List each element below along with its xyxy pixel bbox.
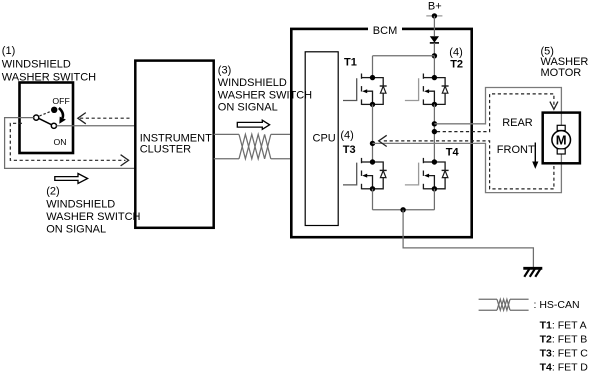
label (2) windshield washer switch on signal bbox=[46, 186, 140, 236]
svg-text:WINDSHIELD: WINDSHIELD bbox=[46, 198, 115, 210]
transistor T1 (FET A) bbox=[343, 74, 387, 108]
ground symbol bbox=[523, 268, 542, 277]
block arrow (3) bbox=[237, 120, 269, 129]
svg-text:(4): (4) bbox=[340, 130, 353, 142]
dashed signal arrow into switch bbox=[80, 117, 130, 119]
svg-text:REAR: REAR bbox=[502, 117, 533, 129]
svg-text:BCM: BCM bbox=[373, 25, 397, 37]
node: ground tap bbox=[400, 207, 405, 212]
svg-text:: HS-CAN: : HS-CAN bbox=[534, 299, 580, 311]
svg-text:WASHER SWITCH: WASHER SWITCH bbox=[46, 211, 140, 223]
svg-text:MOTOR: MOTOR bbox=[541, 67, 582, 79]
diode D1 (B+ feed) bbox=[430, 36, 439, 42]
wire right branch T2 source to T4 drain bbox=[433, 104, 435, 162]
svg-text:INSTRUMENT: INSTRUMENT bbox=[140, 132, 212, 144]
svg-text:T4: T4 bbox=[446, 147, 460, 159]
label (3) windshield washer switch on signal bbox=[218, 64, 312, 113]
wire left bridge output to motor bottom bbox=[373, 143, 562, 192]
wire diode to top rail bbox=[433, 43, 435, 56]
svg-text:WASHER: WASHER bbox=[541, 56, 589, 68]
svg-text:M: M bbox=[556, 133, 567, 148]
svg-text:ON: ON bbox=[54, 137, 67, 147]
B+ terminal bbox=[426, 15, 442, 17]
switch SW1 box bbox=[20, 83, 74, 154]
svg-text:OFF: OFF bbox=[52, 96, 69, 106]
svg-text:T3: FET C: T3: FET C bbox=[540, 348, 589, 360]
wire: switch pivot to instrument cluster (lower route) bbox=[5, 118, 135, 169]
svg-text:T1: T1 bbox=[344, 57, 357, 69]
svg-text:T2: T2 bbox=[450, 58, 463, 70]
svg-text:CPU: CPU bbox=[313, 132, 336, 144]
dashed signal path from switch to cluster (2) bbox=[10, 123, 125, 160]
wire T4 source to bottom rail bbox=[433, 189, 435, 210]
wire bottom rail bbox=[373, 209, 435, 211]
wire right bridge output to motor top bbox=[434, 88, 561, 126]
BCM box bbox=[291, 29, 471, 237]
node: right bridge dashed tap bbox=[432, 129, 437, 134]
svg-text:FRONT: FRONT bbox=[497, 144, 535, 156]
switch SW1 rotation arrow bbox=[59, 108, 63, 118]
legend twisted pair symbol bbox=[479, 299, 529, 310]
twisted pair wire top: cluster to BCM bbox=[214, 133, 239, 135]
svg-text:T1: FET A: T1: FET A bbox=[540, 320, 587, 332]
svg-text:WINDSHIELD: WINDSHIELD bbox=[218, 77, 287, 89]
washer motor box bbox=[543, 113, 580, 164]
wire: switch ON contact to instrument cluster bbox=[57, 125, 136, 127]
svg-text:(3): (3) bbox=[218, 64, 231, 76]
svg-text:(4): (4) bbox=[449, 46, 462, 58]
motor M1 top brush bbox=[557, 125, 565, 130]
motor M1 bottom brush bbox=[557, 149, 565, 154]
svg-text:B+: B+ bbox=[428, 1, 442, 13]
svg-text:T4: FET D: T4: FET D bbox=[540, 362, 589, 374]
motor M1 armature circle bbox=[552, 131, 571, 150]
svg-text:WASHER SWITCH: WASHER SWITCH bbox=[218, 90, 312, 102]
switch SW1 lever bbox=[39, 119, 51, 125]
svg-text:CLUSTER: CLUSTER bbox=[140, 144, 191, 156]
instrument cluster box bbox=[135, 61, 213, 228]
wire left branch T1 source to T3 drain bbox=[372, 104, 374, 162]
twisted pair wire bottom: cluster to BCM bbox=[214, 158, 239, 160]
node: right bridge output (motor feed) bbox=[432, 121, 437, 126]
svg-text:T2: FET B: T2: FET B bbox=[540, 334, 588, 346]
twisted pair twist symbol bbox=[239, 134, 271, 158]
switch SW1 dashed off-position stub bbox=[40, 112, 51, 116]
transistor T2 (FET B) bbox=[405, 74, 449, 108]
wire top rail bbox=[373, 55, 435, 57]
switch SW1 OFF contact dot bbox=[51, 107, 57, 113]
front direction arrow bbox=[534, 143, 536, 163]
wire to ground bbox=[403, 210, 533, 268]
transistor T3 (FET C) bbox=[343, 158, 387, 192]
svg-text:ON SIGNAL: ON SIGNAL bbox=[46, 224, 106, 236]
block arrow (2) bbox=[55, 174, 88, 184]
node: left bridge output bbox=[370, 141, 375, 146]
dashed rear current path (feed) with down arrow bbox=[437, 94, 554, 132]
svg-text:WINDSHIELD: WINDSHIELD bbox=[2, 58, 71, 70]
switch SW1 pivot contact bbox=[34, 115, 39, 120]
svg-text:ON SIGNAL: ON SIGNAL bbox=[218, 102, 278, 114]
svg-text:(1): (1) bbox=[2, 45, 15, 57]
label (1) windshield washer switch text bbox=[2, 45, 96, 84]
node: top rail junction bbox=[432, 53, 437, 58]
switch SW1 ON contact bbox=[51, 123, 56, 128]
transistor T4 (FET D) bbox=[405, 158, 449, 192]
svg-text:T3: T3 bbox=[343, 144, 356, 156]
wire T3 source to bottom rail bbox=[372, 189, 374, 210]
label (5) washer motor bbox=[541, 45, 589, 79]
wire T2 drain branch bbox=[433, 56, 435, 78]
dashed rear current path (return) with left arrow bbox=[382, 141, 554, 189]
wire T1 drain branch bbox=[372, 56, 374, 78]
svg-text:(2): (2) bbox=[46, 186, 59, 198]
CPU box U1 bbox=[305, 52, 338, 226]
wire B+ to diode bbox=[433, 16, 435, 36]
